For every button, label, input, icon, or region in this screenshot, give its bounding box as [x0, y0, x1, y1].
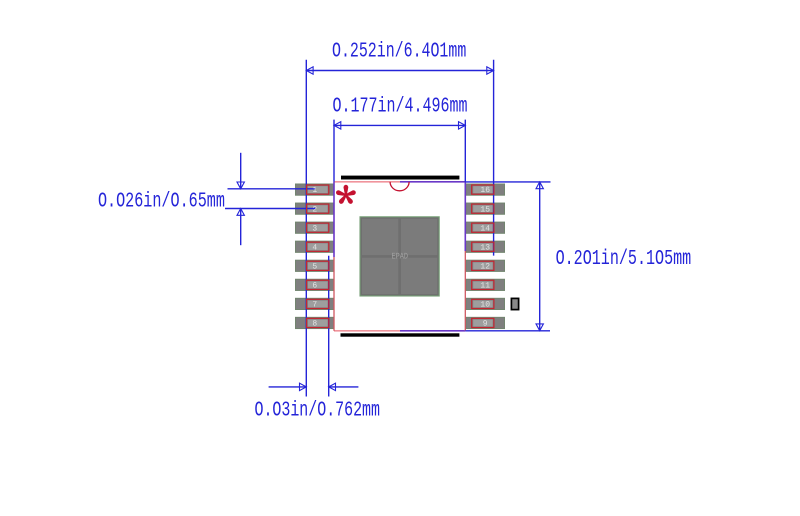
pad 1 lead outline and number: [307, 185, 329, 195]
svg-text:O.177in/4.496mm: O.177in/4.496mm: [332, 95, 467, 119]
svg-text:EPAD: EPAD: [392, 251, 409, 261]
top silkscreen bar: [341, 176, 459, 180]
pad 11 (right, land): [466, 279, 505, 290]
pad 13 lead outline and number: [472, 242, 494, 252]
extension line: right lead tip: [493, 60, 495, 256]
extension line: left lead tip: [305, 60, 307, 397]
svg-text:9: 9: [483, 320, 488, 329]
svg-text:O.252in/6.4O1mm: O.252in/6.4O1mm: [332, 40, 466, 64]
dimension line 0.201in/5.105mm: [536, 182, 543, 331]
svg-text:1: 1: [312, 186, 317, 195]
pad 3 lead outline and number: [307, 223, 329, 233]
svg-text:4: 4: [312, 243, 317, 252]
body right edge upper (purple overlap): [464, 182, 466, 251]
pad 7 lead outline and number: [307, 299, 329, 309]
extension line: left pad inner edge: [328, 256, 330, 397]
body bottom edge (pink): [334, 330, 400, 332]
pad 11 lead outline and number: [472, 280, 494, 290]
body bottom edge right (purple overlap): [400, 330, 465, 332]
pad 15 lead outline and number: [472, 204, 494, 214]
dimension line 0.177in/4.496mm: [334, 122, 465, 129]
svg-text:7: 7: [312, 301, 317, 310]
svg-text:O.O26in/O.65mm: O.O26in/O.65mm: [98, 190, 225, 214]
svg-text:10: 10: [480, 301, 490, 310]
body left edge upper (purple overlap with dim extension): [333, 182, 335, 257]
svg-text:2: 2: [312, 205, 317, 214]
pad 6 (left, land): [296, 279, 335, 290]
extension line: body left: [333, 120, 335, 182]
pad 10 (right, land): [466, 298, 505, 309]
pin-1 notch arc: [390, 182, 409, 191]
svg-text:12: 12: [480, 262, 490, 271]
svg-text:14: 14: [480, 224, 490, 233]
orientation marker rectangle: [511, 298, 518, 309]
pad 7 (left, land): [296, 298, 335, 309]
exposed pad EPAD: [360, 217, 439, 296]
svg-text:8: 8: [312, 320, 317, 329]
pad 9 (right, land): [466, 317, 505, 328]
pad 13 (right, land): [466, 241, 505, 252]
pad 8 lead outline and number: [307, 318, 329, 328]
pad 16 (right, land): [466, 184, 505, 195]
pad 12 (right, land): [466, 260, 505, 271]
pad 6 lead outline and number: [307, 280, 329, 290]
pad 9 lead outline and number: [472, 318, 494, 328]
pad 8 (left, land): [296, 317, 335, 328]
pad 14 (right, land): [466, 222, 505, 233]
svg-text:5: 5: [312, 262, 317, 271]
pad 4 (left, land): [296, 241, 335, 252]
bottom silkscreen bar: [341, 333, 460, 336]
pad 5 lead outline and number: [307, 261, 329, 271]
svg-text:O.2O1in/5.1O5mm: O.2O1in/5.1O5mm: [556, 247, 692, 271]
svg-text:13: 13: [480, 243, 490, 252]
pad 1 (left, land): [296, 184, 335, 195]
pad 2 (left, land): [296, 203, 335, 214]
package body fill: [334, 182, 465, 331]
pad 16 lead outline and number: [472, 185, 494, 195]
svg-text:3: 3: [312, 224, 317, 233]
extension line: body top right: [465, 181, 550, 183]
svg-text:6: 6: [312, 281, 317, 290]
extension line: body bottom right: [465, 330, 550, 332]
pad 15 (right, land): [466, 203, 505, 214]
dimension 0.026in/0.65mm pitch lines: [225, 153, 316, 245]
body right edge lower (pink): [464, 251, 466, 331]
dimension 0.03in/0.762mm: [269, 383, 359, 390]
pad 5 (left, land): [296, 260, 335, 271]
pad 10 lead outline and number: [472, 299, 494, 309]
pad 3 (left, land): [296, 222, 335, 233]
pad 12 lead outline and number: [472, 261, 494, 271]
pad 2 lead outline and number: [307, 204, 329, 214]
body top edge right (purple overlap with extension line): [400, 181, 465, 183]
dimension line 0.252in/6.401mm: [306, 67, 493, 74]
pad 14 lead outline and number: [472, 223, 494, 233]
body top edge (pink): [334, 181, 400, 183]
svg-text:16: 16: [480, 186, 490, 195]
extension line: body right: [464, 120, 466, 182]
svg-text:O.O3in/O.762mm: O.O3in/O.762mm: [254, 398, 380, 422]
pad 4 lead outline and number: [307, 242, 329, 252]
svg-text:11: 11: [480, 281, 490, 290]
pin-1 marker asterisk: [335, 185, 356, 205]
body left edge lower (pink): [333, 257, 335, 331]
svg-text:15: 15: [480, 205, 490, 214]
